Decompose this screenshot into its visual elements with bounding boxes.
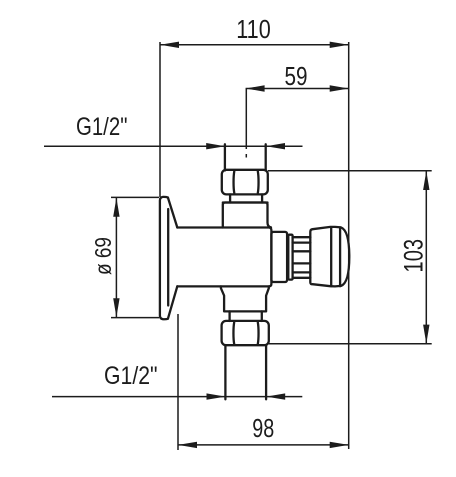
svg-text:98: 98 [252,413,274,443]
arrow dia69 down [113,298,119,317]
knob face line 1 [330,227,332,286]
top neck [229,194,231,202]
wire ext line 103 bottom [269,343,432,345]
arrow G1/2 bottom right [266,393,285,399]
arrow 103 down [423,325,429,344]
svg-text:G1/2": G1/2" [76,113,128,141]
push button knob [310,227,349,287]
wire right wall line x=348.7 [348,42,350,449]
svg-text:G1/2": G1/2" [104,362,158,390]
top hex nut [222,170,268,195]
top pipe [224,144,226,170]
arrow 98 left [178,442,197,448]
arrow 59 left [246,85,265,91]
bonnet [271,232,287,282]
wire dim line 98 [178,444,349,446]
arrow 110 left [160,42,179,48]
threaded stem [293,236,311,238]
lower neck [228,311,230,321]
wire ext line dia69 bottom [111,317,159,319]
wire leader G1/2 bottom [52,396,302,398]
wire dim line 59 [246,88,349,90]
arrow 110 right [330,42,349,48]
svg-text:59: 59 [285,61,308,91]
arrow G1/2 top leader [206,143,225,149]
wire dim line dia69 [115,198,117,317]
lower hex nut [222,321,269,345]
valve body [177,228,271,287]
wire left extension line x=160 [159,42,161,197]
arrow 59 right [330,85,349,91]
arrow G1/2 bottom leader [207,393,226,399]
arrow 103 up [423,171,429,190]
flange [160,197,177,319]
bonnet rim ring [288,235,292,280]
bottom pipe [224,345,226,399]
wire dim line 110 [160,44,349,46]
knob face line 2 [339,227,341,286]
svg-text:110: 110 [236,14,271,44]
upper block [223,203,271,228]
wire centerline top pipe [245,89,247,150]
wire leader G1/2 top [44,145,303,147]
wire dim line 103 [425,171,427,344]
svg-text:103: 103 [399,239,429,273]
arrow 98 right [330,442,349,448]
svg-text:ø 69: ø 69 [90,237,116,275]
lower block [221,286,269,311]
arrow dia69 up [113,198,119,217]
wire ext line dia69 top [111,196,159,198]
wire ext line 103 top [268,170,432,172]
arrow G1/2 top right [266,143,285,149]
wire ext line 98 left [177,314,179,450]
